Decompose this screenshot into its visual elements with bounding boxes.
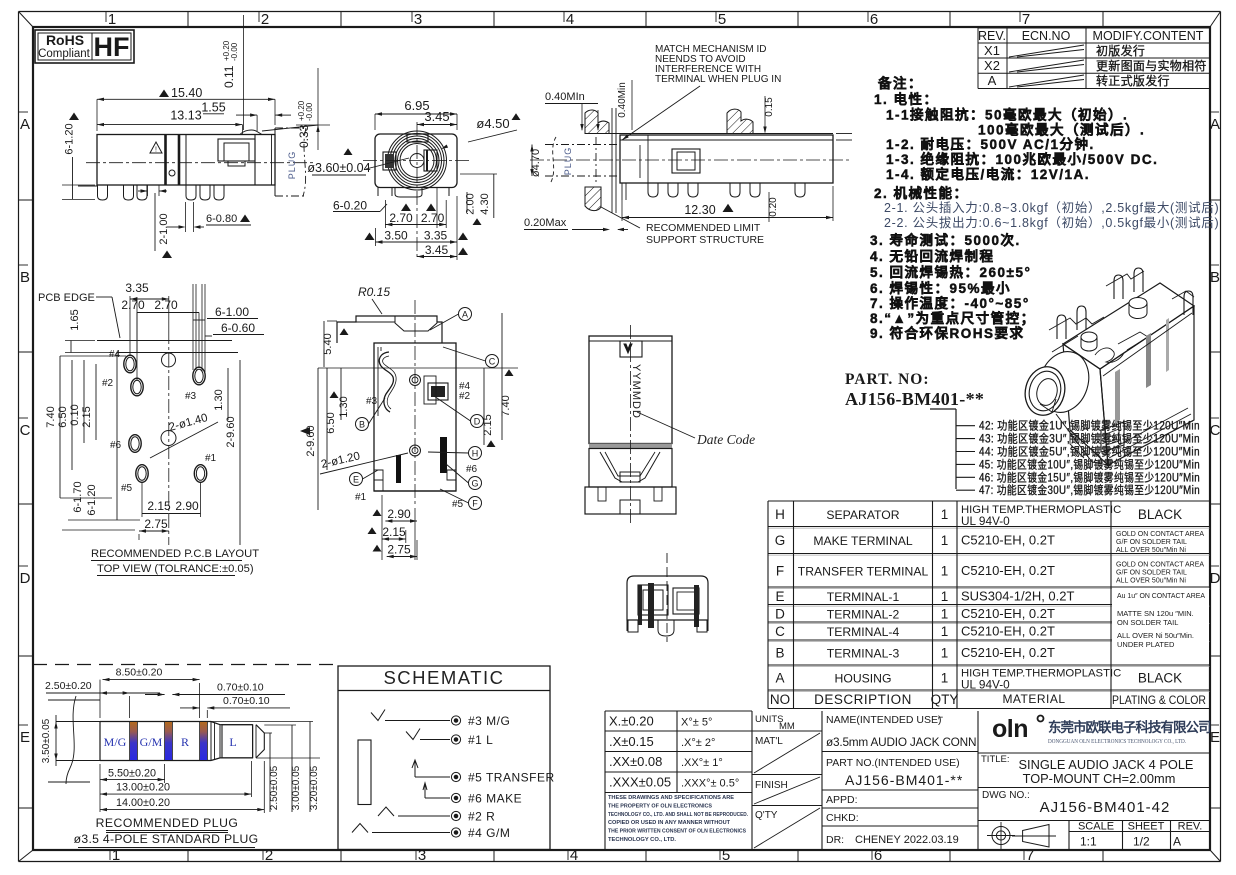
svg-text:GOLD ON CONTACT AREA: GOLD ON CONTACT AREA bbox=[1116, 561, 1204, 568]
svg-text:1: 1 bbox=[941, 589, 949, 604]
svg-text:3. 寿命测试：5000次.: 3. 寿命测试：5000次. bbox=[870, 232, 1021, 248]
svg-text:#1: #1 bbox=[205, 453, 217, 464]
svg-text:HOUSING: HOUSING bbox=[835, 672, 892, 686]
svg-text:7: 7 bbox=[1022, 11, 1030, 28]
svg-text:.XXX°± 0.5°: .XXX°± 0.5° bbox=[681, 777, 739, 789]
svg-text:R0.15: R0.15 bbox=[358, 285, 390, 299]
svg-text:6-1.70: 6-1.70 bbox=[72, 481, 84, 512]
svg-text:2.90: 2.90 bbox=[387, 507, 411, 521]
svg-text:B: B bbox=[20, 269, 30, 286]
svg-text:.XX°± 1°: .XX°± 1° bbox=[681, 757, 723, 769]
svg-text:2.70: 2.70 bbox=[154, 298, 178, 312]
svg-text:7: 7 bbox=[1026, 847, 1034, 864]
svg-text:1: 1 bbox=[941, 606, 949, 621]
svg-text:D: D bbox=[1210, 570, 1221, 587]
svg-text:TERMINAL WHEN PLUG IN: TERMINAL WHEN PLUG IN bbox=[655, 74, 781, 85]
svg-text:#3: #3 bbox=[185, 391, 197, 402]
svg-text:TERMINAL-1: TERMINAL-1 bbox=[827, 590, 900, 604]
svg-text:1:1: 1:1 bbox=[1080, 835, 1097, 849]
svg-text:1: 1 bbox=[941, 533, 949, 548]
svg-text:42: 功能区镀金1U″,锡脚镀雾纯锡至少120U″Min: 42: 功能区镀金1U″,锡脚镀雾纯锡至少120U″Min bbox=[979, 419, 1200, 433]
svg-text:MM: MM bbox=[779, 721, 795, 732]
svg-text:47: 功能区镀金30U″,锡脚镀雾纯锡至少120U″Min: 47: 功能区镀金30U″,锡脚镀雾纯锡至少120U″Min bbox=[979, 483, 1200, 497]
svg-text:6: 6 bbox=[870, 11, 878, 28]
svg-text:44: 功能区镀金5U″,锡脚镀雾纯锡至少120U″Min: 44: 功能区镀金5U″,锡脚镀雾纯锡至少120U″Min bbox=[979, 445, 1200, 459]
svg-text:G/M: G/M bbox=[140, 735, 163, 749]
svg-text:2.00: 2.00 bbox=[465, 193, 477, 214]
svg-text:2.75: 2.75 bbox=[144, 517, 168, 531]
svg-text:3.00±0.05: 3.00±0.05 bbox=[291, 765, 302, 810]
svg-text:6.50: 6.50 bbox=[57, 406, 69, 427]
svg-text:0.40Min: 0.40Min bbox=[617, 82, 628, 118]
svg-text:2: 2 bbox=[261, 11, 269, 28]
svg-text:#4: #4 bbox=[109, 349, 121, 360]
svg-text:#6: #6 bbox=[466, 464, 478, 475]
svg-text:#2 R: #2 R bbox=[468, 810, 495, 824]
svg-text:APPD:: APPD: bbox=[826, 794, 858, 806]
svg-text:3.45: 3.45 bbox=[424, 109, 449, 124]
svg-text:D: D bbox=[775, 606, 785, 621]
svg-text:DESCRIPTION: DESCRIPTION bbox=[814, 692, 912, 707]
svg-text:SHEET: SHEET bbox=[1128, 821, 1165, 833]
svg-text:6-0.60: 6-0.60 bbox=[221, 321, 255, 335]
svg-text:TITLE:: TITLE: bbox=[981, 754, 1010, 765]
svg-text:1/2: 1/2 bbox=[1133, 835, 1150, 849]
svg-text:#5: #5 bbox=[121, 483, 133, 494]
svg-text:6-0.20: 6-0.20 bbox=[333, 199, 367, 213]
svg-text:A: A bbox=[20, 116, 30, 133]
svg-text:MAKE TERMINAL: MAKE TERMINAL bbox=[813, 534, 913, 548]
svg-text:2.70: 2.70 bbox=[121, 298, 145, 312]
svg-text:#5 TRANSFER: #5 TRANSFER bbox=[468, 771, 555, 785]
svg-text:2.75: 2.75 bbox=[387, 543, 411, 557]
svg-text:CHKD:: CHKD: bbox=[826, 812, 859, 824]
svg-text:#6 MAKE: #6 MAKE bbox=[468, 792, 522, 806]
svg-text:THE PROPERTY OF OLN ELECTRONIC: THE PROPERTY OF OLN ELECTRONICS bbox=[608, 803, 712, 809]
svg-text:HF: HF bbox=[94, 32, 130, 62]
svg-text:6-1.00: 6-1.00 bbox=[215, 305, 249, 319]
svg-text:1: 1 bbox=[941, 507, 949, 522]
svg-text:⌐: ⌐ bbox=[938, 712, 943, 722]
svg-text:2.50±0.20: 2.50±0.20 bbox=[45, 680, 92, 692]
svg-text:NO: NO bbox=[770, 692, 790, 707]
svg-text:DONGGUAN OLN ELECTRONICS TECHN: DONGGUAN OLN ELECTRONICS TECHNOLOGY CO.,… bbox=[1048, 738, 1186, 745]
svg-text:13.13: 13.13 bbox=[170, 109, 201, 123]
svg-text:2: 2 bbox=[265, 847, 273, 864]
svg-text:3.35: 3.35 bbox=[424, 229, 448, 243]
svg-text:YYMMDD: YYMMDD bbox=[630, 364, 642, 419]
svg-text:1-1接触阻抗：50毫欧最大（初始）.: 1-1接触阻抗：50毫欧最大（初始）. bbox=[886, 107, 1128, 123]
svg-text:CHENEY 2022.03.19: CHENEY 2022.03.19 bbox=[855, 834, 959, 846]
svg-text:TRANSFER TERMINAL: TRANSFER TERMINAL bbox=[798, 564, 929, 578]
svg-text:THE PRIOR WRITTEN CONSENT OF O: THE PRIOR WRITTEN CONSENT OF OLN ELECTRO… bbox=[608, 829, 746, 835]
svg-text:#3: #3 bbox=[366, 396, 378, 407]
svg-text:5. 回流焊锡热：260±5°: 5. 回流焊锡热：260±5° bbox=[870, 264, 1031, 280]
svg-text:#1: #1 bbox=[355, 492, 367, 503]
svg-text:0.15: 0.15 bbox=[764, 97, 775, 117]
svg-text:TECHNOLOGY CO., LTD.: TECHNOLOGY CO., LTD. bbox=[608, 837, 676, 843]
svg-text:3.50±0.05: 3.50±0.05 bbox=[41, 718, 52, 763]
svg-text:2.15: 2.15 bbox=[382, 525, 406, 539]
svg-text:9. 符合环保ROHS要求: 9. 符合环保ROHS要求 bbox=[870, 325, 1025, 341]
svg-text:ON SOLDER TAIL: ON SOLDER TAIL bbox=[1117, 618, 1178, 627]
svg-text:B: B bbox=[775, 646, 784, 661]
svg-text:PLATING & COLOR: PLATING & COLOR bbox=[1112, 693, 1206, 707]
svg-text:SEPARATOR: SEPARATOR bbox=[826, 508, 899, 522]
svg-text:2. 机械性能：: 2. 机械性能： bbox=[874, 185, 969, 201]
svg-text:6-1.20: 6-1.20 bbox=[64, 123, 76, 154]
svg-text:ø3.5 4-POLE STANDARD PLUG: ø3.5 4-POLE STANDARD PLUG bbox=[74, 832, 259, 846]
svg-text:8.50±0.20: 8.50±0.20 bbox=[116, 667, 163, 679]
svg-text:REV.: REV. bbox=[1178, 821, 1203, 833]
svg-text:1.55: 1.55 bbox=[201, 101, 225, 115]
svg-text:NAME(INTENDED USE): NAME(INTENDED USE) bbox=[826, 714, 942, 726]
svg-text:5.50±0.20: 5.50±0.20 bbox=[108, 768, 156, 780]
svg-text:6-0.80: 6-0.80 bbox=[206, 213, 237, 225]
svg-text:.X°± 2°: .X°± 2° bbox=[681, 737, 715, 749]
svg-text:TERMINAL-4: TERMINAL-4 bbox=[827, 625, 900, 639]
svg-text:RECOMMENDED LIMIT: RECOMMENDED LIMIT bbox=[646, 222, 761, 234]
svg-text:7. 操作温度：-40°~85°: 7. 操作温度：-40°~85° bbox=[870, 295, 1030, 311]
svg-text:6-1.20: 6-1.20 bbox=[86, 484, 98, 515]
svg-text:1.30: 1.30 bbox=[338, 396, 350, 417]
svg-text:R: R bbox=[181, 735, 189, 749]
svg-text:THESE DRAWINGS AND SPECIFICATI: THESE DRAWINGS AND SPECIFICATIONS ARE bbox=[608, 795, 734, 801]
svg-text:转正式版发行: 转正式版发行 bbox=[1096, 73, 1170, 88]
svg-text:PLUG: PLUG bbox=[287, 151, 297, 180]
svg-text:H: H bbox=[472, 449, 479, 459]
svg-text:G: G bbox=[775, 533, 786, 548]
svg-text:G/F ON SOLDER TAIL: G/F ON SOLDER TAIL bbox=[1116, 539, 1187, 546]
svg-text:C: C bbox=[20, 422, 31, 439]
svg-text:Au 1u″ ON CONTACT AREA: Au 1u″ ON CONTACT AREA bbox=[1117, 591, 1205, 600]
svg-text:3.35: 3.35 bbox=[125, 281, 149, 295]
svg-text:3.50: 3.50 bbox=[384, 229, 408, 243]
svg-text:6. 焊锡性：95%最小: 6. 焊锡性：95%最小 bbox=[870, 280, 1011, 296]
svg-text:#5: #5 bbox=[452, 499, 464, 510]
svg-text:SUPPORT STRUCTURE: SUPPORT STRUCTURE bbox=[646, 234, 764, 246]
svg-text:1. 电性：: 1. 电性： bbox=[874, 91, 939, 107]
svg-text:X°± 5°: X°± 5° bbox=[681, 717, 712, 729]
svg-text:-0.00: -0.00 bbox=[230, 42, 239, 61]
svg-text:D: D bbox=[20, 570, 31, 587]
svg-text:Q'TY: Q'TY bbox=[755, 810, 778, 821]
svg-text:3.20±0.05: 3.20±0.05 bbox=[309, 765, 320, 810]
svg-text:2-9.60: 2-9.60 bbox=[225, 416, 237, 447]
svg-text:东莞市欧联电子科技有限公司: 东莞市欧联电子科技有限公司 bbox=[1048, 719, 1211, 735]
svg-text:BLACK: BLACK bbox=[1138, 507, 1182, 522]
svg-text:4. 无铅回流焊制程: 4. 无铅回流焊制程 bbox=[870, 248, 995, 264]
svg-text:3: 3 bbox=[414, 11, 422, 28]
svg-text:46: 功能区镀金15U″,锡脚镀雾纯锡至少120U″Min: 46: 功能区镀金15U″,锡脚镀雾纯锡至少120U″Min bbox=[979, 470, 1200, 484]
svg-text:1-3. 绝缘阻抗：100兆欧最小/500V DC.: 1-3. 绝缘阻抗：100兆欧最小/500V DC. bbox=[886, 151, 1158, 167]
svg-text:G: G bbox=[471, 479, 478, 489]
svg-text:1-4. 额定电压/电流：12V/1A.: 1-4. 额定电压/电流：12V/1A. bbox=[886, 166, 1090, 182]
svg-text:0.70±0.10: 0.70±0.10 bbox=[223, 695, 270, 707]
svg-text:0.70±0.10: 0.70±0.10 bbox=[217, 682, 264, 694]
svg-text:14.00±0.20: 14.00±0.20 bbox=[116, 797, 170, 809]
svg-text:A: A bbox=[462, 310, 468, 320]
svg-text:C5210-EH, 0.2T: C5210-EH, 0.2T bbox=[961, 563, 1055, 578]
svg-text:2.15: 2.15 bbox=[147, 499, 171, 513]
svg-text:BLACK: BLACK bbox=[1138, 671, 1182, 686]
svg-text:13.00±0.20: 13.00±0.20 bbox=[116, 782, 170, 794]
svg-text:AJ156-BM401-**: AJ156-BM401-** bbox=[845, 772, 963, 788]
svg-text:A: A bbox=[988, 73, 997, 88]
svg-text:3.45: 3.45 bbox=[425, 243, 449, 257]
svg-text:AJ156-BM401-**: AJ156-BM401-** bbox=[845, 389, 984, 409]
svg-text:TOP-MOUNT CH=2.00mm: TOP-MOUNT CH=2.00mm bbox=[1023, 771, 1176, 786]
svg-text:RoHS: RoHS bbox=[46, 32, 84, 48]
svg-text:A: A bbox=[1173, 835, 1181, 849]
svg-text:1.65: 1.65 bbox=[69, 309, 81, 330]
svg-text:100毫欧最大（测试后）.: 100毫欧最大（测试后）. bbox=[978, 122, 1145, 138]
svg-text:UL 94V-0: UL 94V-0 bbox=[961, 514, 1010, 528]
svg-text:FINISH: FINISH bbox=[755, 780, 788, 791]
svg-text:C: C bbox=[775, 624, 785, 639]
svg-text:E: E bbox=[775, 589, 784, 604]
svg-text:TERMINAL-2: TERMINAL-2 bbox=[827, 607, 900, 621]
svg-text:1: 1 bbox=[112, 847, 120, 864]
svg-text:TERMINAL-3: TERMINAL-3 bbox=[827, 647, 900, 661]
svg-text:C5210-EH, 0.2T: C5210-EH, 0.2T bbox=[961, 645, 1055, 660]
svg-text:#6: #6 bbox=[110, 440, 122, 451]
svg-text:DR:: DR: bbox=[826, 834, 844, 846]
svg-text:oln: oln bbox=[992, 715, 1028, 743]
svg-text:COPIED OR USED IN ANY MANNER W: COPIED OR USED IN ANY MANNER WITHOUT bbox=[608, 820, 731, 826]
svg-text:PART NO.(INTENDED USE): PART NO.(INTENDED USE) bbox=[826, 757, 960, 769]
svg-text:#1 L: #1 L bbox=[468, 733, 493, 747]
svg-text:6: 6 bbox=[874, 847, 882, 864]
svg-text:.XXX±0.05: .XXX±0.05 bbox=[609, 774, 671, 789]
svg-text:2.15: 2.15 bbox=[81, 406, 93, 427]
svg-text:1: 1 bbox=[941, 646, 949, 661]
svg-text:C: C bbox=[1210, 422, 1221, 439]
svg-text:AJ156-BM401-42: AJ156-BM401-42 bbox=[1040, 799, 1171, 816]
svg-text:#4 G/M: #4 G/M bbox=[468, 826, 510, 840]
svg-text:GOLD ON CONTACT AREA: GOLD ON CONTACT AREA bbox=[1116, 531, 1204, 538]
svg-text:UL 94V-0: UL 94V-0 bbox=[961, 678, 1010, 692]
svg-text:0.10: 0.10 bbox=[69, 404, 81, 425]
svg-text:0.40MIn: 0.40MIn bbox=[545, 91, 585, 103]
svg-text:C: C bbox=[489, 357, 496, 367]
svg-text:F: F bbox=[472, 499, 478, 509]
svg-text:REV.: REV. bbox=[978, 29, 1006, 43]
svg-text:2-1.00: 2-1.00 bbox=[158, 213, 170, 244]
svg-text:RECOMMENDED PLUG: RECOMMENDED PLUG bbox=[96, 816, 239, 830]
svg-text:1: 1 bbox=[941, 624, 949, 639]
svg-text:!: ! bbox=[155, 147, 157, 154]
svg-text:E: E bbox=[20, 729, 30, 746]
svg-text:.XX±0.08: .XX±0.08 bbox=[609, 754, 662, 769]
svg-text:15.40: 15.40 bbox=[171, 86, 202, 100]
svg-text:-0.00: -0.00 bbox=[305, 102, 314, 121]
svg-text:0.20: 0.20 bbox=[768, 197, 779, 217]
svg-text:MAT'L: MAT'L bbox=[755, 736, 783, 747]
svg-text:ECN.NO: ECN.NO bbox=[1022, 29, 1071, 43]
svg-text:C5210-EH, 0.2T: C5210-EH, 0.2T bbox=[961, 533, 1055, 548]
svg-text:E: E bbox=[1210, 729, 1220, 746]
svg-text:F: F bbox=[776, 563, 784, 578]
svg-text:QTY: QTY bbox=[931, 692, 959, 707]
svg-text:1: 1 bbox=[941, 671, 949, 686]
svg-text:RECOMMENDED P.C.B LAYOUT: RECOMMENDED P.C.B LAYOUT bbox=[91, 548, 259, 560]
svg-text:.X±0.15: .X±0.15 bbox=[609, 734, 654, 749]
svg-text:2.90: 2.90 bbox=[175, 499, 199, 513]
svg-text:Compliant: Compliant bbox=[38, 48, 91, 60]
svg-text:备注：: 备注： bbox=[877, 75, 923, 91]
svg-text:B: B bbox=[359, 420, 365, 430]
svg-text:Date Code: Date Code bbox=[696, 432, 755, 447]
svg-text:5: 5 bbox=[718, 11, 726, 28]
svg-text:UNDER PLATED: UNDER PLATED bbox=[1117, 640, 1175, 649]
svg-text:X2: X2 bbox=[984, 58, 1000, 73]
svg-text:X1: X1 bbox=[984, 43, 1000, 58]
svg-text:7.40: 7.40 bbox=[45, 406, 57, 427]
svg-text:E: E bbox=[353, 475, 359, 485]
svg-text:TECHNOLOGY CO., LTD. AND SHALL: TECHNOLOGY CO., LTD. AND SHALL NOT BE RE… bbox=[608, 812, 748, 818]
svg-text:C5210-EH, 0.2T: C5210-EH, 0.2T bbox=[961, 606, 1055, 621]
svg-text:ø3.60±0.04: ø3.60±0.04 bbox=[307, 161, 370, 175]
svg-text:PCB EDGE: PCB EDGE bbox=[38, 292, 95, 304]
svg-text:C5210-EH, 0.2T: C5210-EH, 0.2T bbox=[961, 624, 1055, 639]
svg-text:D: D bbox=[474, 417, 481, 427]
svg-text:1: 1 bbox=[108, 11, 116, 28]
svg-text:4: 4 bbox=[570, 847, 578, 864]
svg-text:0.11: 0.11 bbox=[222, 65, 236, 88]
svg-text:2-1. 公头插入力:0.8~3.0kgf（初始）,2.5k: 2-1. 公头插入力:0.8~3.0kgf（初始）,2.5kgf最大(测试后) bbox=[884, 200, 1219, 215]
svg-text:0.33: 0.33 bbox=[297, 124, 311, 148]
svg-text:A: A bbox=[1210, 116, 1220, 133]
svg-text:更新图面与实物相符: 更新图面与实物相符 bbox=[1096, 58, 1207, 73]
svg-text:B: B bbox=[1210, 269, 1220, 286]
svg-text:ø3.5mm AUDIO JACK CONN: ø3.5mm AUDIO JACK CONN bbox=[826, 735, 976, 749]
svg-text:M/G: M/G bbox=[104, 735, 127, 749]
svg-text:8.“▲”为重点尺寸管控；: 8.“▲”为重点尺寸管控； bbox=[870, 310, 1036, 327]
svg-text:SCALE: SCALE bbox=[1078, 821, 1114, 833]
svg-text:1.30: 1.30 bbox=[213, 389, 225, 410]
svg-text:1-2. 耐电压：500V AC/1分钟.: 1-2. 耐电压：500V AC/1分钟. bbox=[886, 136, 1095, 152]
svg-text:DWG NO.:: DWG NO.: bbox=[982, 790, 1030, 801]
svg-text:PLUG: PLUG bbox=[563, 147, 573, 176]
svg-text:SUS304-1/2H, 0.2T: SUS304-1/2H, 0.2T bbox=[961, 588, 1075, 603]
svg-text:G/F ON SOLDER TAIL: G/F ON SOLDER TAIL bbox=[1116, 569, 1187, 576]
svg-text:X.±0.20: X.±0.20 bbox=[609, 714, 654, 729]
svg-text:PART. NO:: PART. NO: bbox=[845, 371, 930, 388]
svg-text:4: 4 bbox=[566, 11, 574, 28]
svg-text:MODIFY.CONTENT: MODIFY.CONTENT bbox=[1093, 29, 1204, 43]
svg-text:SINGLE AUDIO JACK 4 POLE: SINGLE AUDIO JACK 4 POLE bbox=[1019, 757, 1194, 772]
svg-text:2.70: 2.70 bbox=[421, 211, 445, 225]
svg-text:1: 1 bbox=[941, 563, 949, 578]
svg-text:#3 M/G: #3 M/G bbox=[468, 714, 510, 728]
svg-text:A: A bbox=[775, 671, 784, 686]
svg-text:ALL OVER 50u″Min Ni: ALL OVER 50u″Min Ni bbox=[1116, 547, 1186, 554]
svg-text:H: H bbox=[775, 507, 785, 522]
svg-text:ALL OVER 50u″Min Ni: ALL OVER 50u″Min Ni bbox=[1116, 577, 1186, 584]
svg-text:TOP VIEW (TOLRANCE:±0.05): TOP VIEW (TOLRANCE:±0.05) bbox=[97, 563, 254, 575]
svg-text:ø4.50: ø4.50 bbox=[476, 116, 509, 131]
svg-text:MATTE SN 120u ″MIN.: MATTE SN 120u ″MIN. bbox=[1117, 609, 1194, 618]
svg-text:4.30: 4.30 bbox=[479, 193, 491, 214]
svg-text:#2: #2 bbox=[102, 378, 114, 389]
svg-text:#2: #2 bbox=[459, 391, 471, 402]
svg-text:SCHEMATIC: SCHEMATIC bbox=[383, 667, 504, 688]
svg-text:MATERIAL: MATERIAL bbox=[1002, 692, 1065, 706]
svg-text:ALL OVER Ni 50u″Min.: ALL OVER Ni 50u″Min. bbox=[1117, 631, 1194, 640]
svg-text:12.30: 12.30 bbox=[684, 203, 715, 217]
svg-text:0.20Max: 0.20Max bbox=[524, 217, 567, 229]
svg-text:L: L bbox=[229, 735, 236, 749]
svg-text:初版发行: 初版发行 bbox=[1096, 43, 1145, 58]
svg-text:2.50±0.05: 2.50±0.05 bbox=[269, 765, 280, 810]
svg-text:2.70: 2.70 bbox=[389, 211, 413, 225]
svg-text:2-2. 公头拔出力:0.6~1.8kgf（初始）,0.5k: 2-2. 公头拔出力:0.6~1.8kgf（初始）,0.5kgf最小(测试后) bbox=[884, 215, 1219, 230]
